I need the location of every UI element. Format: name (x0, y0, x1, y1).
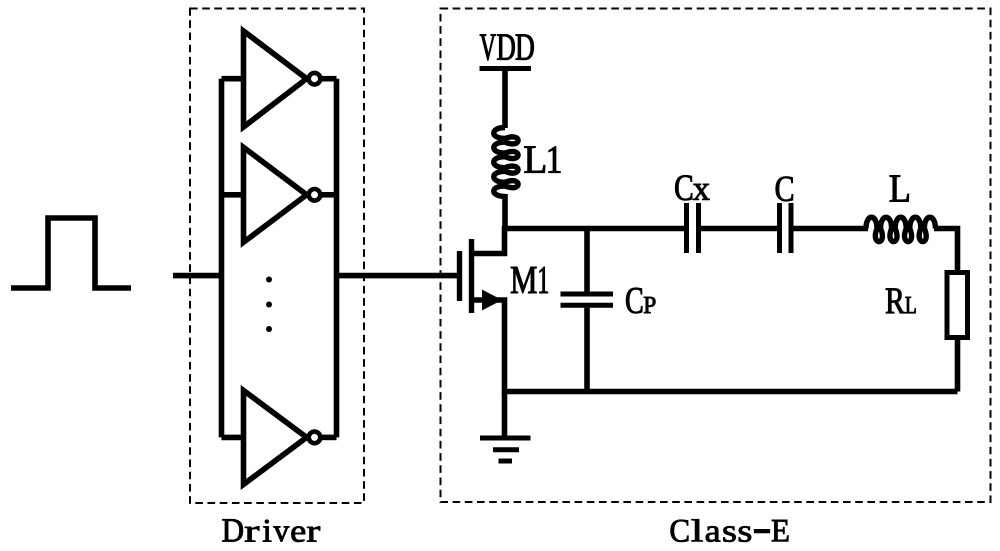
wire right bus (334, 79, 340, 438)
label L1 (524, 147, 560, 173)
inverter U2 (222, 147, 337, 242)
label VDD (480, 35, 534, 61)
wire driver output to gate (337, 273, 459, 279)
wire input line (173, 273, 224, 279)
wire VDD to L1 (502, 69, 508, 129)
inductor L1 coil (494, 128, 518, 197)
wire source to ground (502, 392, 508, 438)
ellipsis dots (266, 277, 272, 333)
capacitor CP (561, 229, 614, 392)
input pulse waveform (11, 218, 131, 288)
label L (890, 176, 909, 202)
driver dashed box (190, 9, 364, 504)
wire RL to ground rail (955, 340, 961, 392)
source arrow (482, 290, 502, 311)
channel bar (469, 239, 474, 313)
label CP (626, 288, 655, 314)
label Cx (675, 175, 709, 200)
label Class-E (671, 519, 789, 542)
resistor RL (947, 273, 968, 338)
transistor M1 (460, 226, 505, 394)
gate bar (457, 251, 462, 301)
wire L1 to drain node (502, 194, 508, 229)
inverter U1 (222, 31, 337, 127)
capacitor Cx (687, 203, 699, 253)
wire left bus (219, 79, 225, 438)
ground symbol (480, 438, 531, 461)
label C (776, 177, 793, 202)
inverter U3 (222, 390, 337, 484)
VDD rail bar (480, 66, 532, 71)
label M1 (511, 267, 548, 293)
capacitor C (780, 203, 792, 253)
drain connection (472, 226, 505, 254)
ground rail wire (505, 389, 958, 395)
source connection (472, 300, 505, 394)
Class-E dashed box (441, 9, 991, 503)
label RL (886, 289, 916, 314)
wire main node line (502, 226, 868, 232)
wire L to RL (934, 229, 958, 271)
inductor L coil (866, 217, 935, 241)
label Driver (223, 519, 321, 542)
